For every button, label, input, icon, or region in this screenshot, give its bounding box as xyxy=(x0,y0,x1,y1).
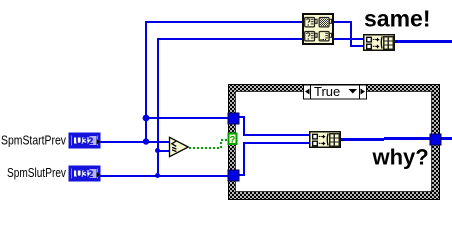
svg-text:U32: U32 xyxy=(76,169,93,180)
svg-text:?: ? xyxy=(230,135,236,145)
svg-text:SpmStartPrev: SpmStartPrev xyxy=(1,133,66,148)
svg-text:SpmSlutPrev: SpmSlutPrev xyxy=(7,165,66,180)
svg-text:same!: same! xyxy=(364,5,430,31)
svg-text:why?: why? xyxy=(372,145,429,170)
svg-text:U32: U32 xyxy=(76,136,93,147)
svg-text:True: True xyxy=(314,84,340,99)
